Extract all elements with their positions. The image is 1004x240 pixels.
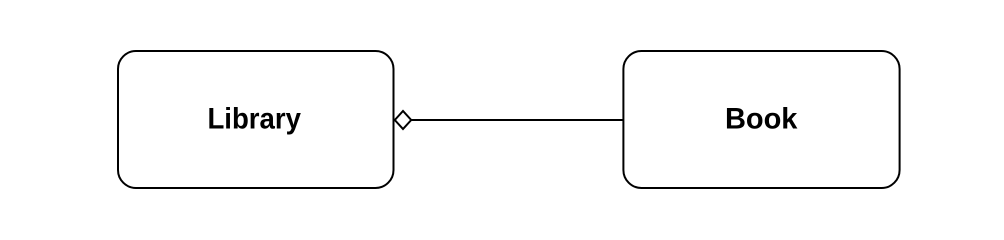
aggregation diamond at Library — [395, 111, 411, 129]
svg-text:Book: Book — [725, 103, 798, 136]
svg-text:Library: Library — [207, 103, 301, 136]
class Book box — [623, 51, 899, 188]
class Library box — [118, 51, 394, 188]
wire association line Library-Book — [411, 119, 624, 121]
